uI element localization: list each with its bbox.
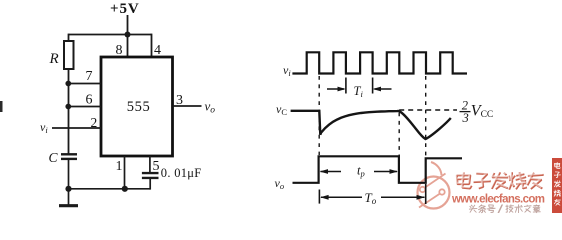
svg-text:C: C (49, 150, 59, 165)
watermark banner vertical text (554, 162, 561, 206)
dashed horizontal 2/3 Vcc level (399, 109, 457, 111)
watermark text zi (473, 171, 491, 189)
node junction dot at +5V rail (125, 32, 131, 38)
node dot pin1 ground (122, 186, 128, 192)
wire left rail R bottom to capacitor (68, 69, 70, 154)
ground symbol bar (59, 204, 78, 207)
wire C2 bottom to ground rail (149, 178, 151, 190)
waveform v_C: plateau, drop, exponential recovery, discharge dip, recovery (291, 111, 451, 139)
svg-text:www.elecfans.com: www.elecfans.com (451, 194, 545, 206)
wire top rail (69, 34, 152, 36)
dashed vertical at v_C plateau end (398, 113, 400, 157)
wire capacitor to ground rail (68, 159, 70, 189)
dashed vertical at first falling edge (318, 76, 320, 155)
watermark logo circle (418, 162, 450, 209)
T_o tick right (425, 184, 427, 204)
wire pin 4 (151, 34, 153, 57)
wire pin 7 (69, 83, 102, 85)
wire v_i to pin 2 (52, 127, 101, 129)
watermark text shao (507, 171, 527, 190)
svg-text:2: 2 (91, 115, 98, 130)
T_o arrow left (321, 196, 362, 198)
svg-text:6: 6 (86, 93, 93, 108)
op IC U1 555 timer box (101, 57, 173, 156)
t_p arrow right (374, 171, 397, 173)
T_i tick left (345, 78, 347, 94)
T_i arrow right (375, 88, 392, 90)
waveform v_o output pulse (293, 156, 463, 183)
wire R top (68, 34, 70, 41)
capacitor C2 0.01uF plates (142, 172, 159, 174)
resistor R (64, 41, 74, 69)
watermark right banner (552, 158, 562, 213)
wire pin 8 (127, 35, 129, 58)
watermark text you (526, 171, 544, 190)
t_p arrow left (321, 171, 342, 173)
wire pin 3 output (173, 105, 202, 107)
stray scan mark left edge (0, 101, 3, 112)
waveform v_i square wave (292, 52, 467, 73)
wire pin 1 to ground rail (124, 156, 126, 189)
watermark text dian (electron) (455, 171, 473, 189)
svg-text:3: 3 (176, 93, 183, 108)
svg-text:R: R (49, 51, 59, 67)
node dot ground left (65, 186, 71, 192)
svg-text:0. 01μF: 0. 01μF (161, 166, 202, 180)
svg-text:555: 555 (127, 99, 151, 115)
wire pin 5 (149, 156, 151, 172)
T_i tick right (372, 78, 374, 94)
T_o tick left (318, 190, 320, 204)
T_i arrow left (327, 88, 344, 90)
wire ground rail (69, 188, 151, 190)
capacitor C plates (61, 153, 77, 155)
svg-text:5: 5 (153, 159, 160, 174)
watermark caption line (469, 204, 541, 213)
svg-text:+5V: +5V (110, 1, 140, 17)
wire +5V stub (127, 15, 129, 35)
ground stub (68, 189, 70, 205)
svg-text:3: 3 (462, 111, 469, 125)
T_o arrow right (381, 196, 425, 198)
node dot pin6 rail (65, 104, 71, 110)
wire pin 6 (69, 106, 102, 108)
dashed vertical at v_C minimum (425, 76, 427, 158)
watermark text fa (490, 171, 508, 190)
node dot pin7 rail (65, 81, 71, 87)
svg-text:7: 7 (86, 69, 93, 84)
svg-text:1: 1 (116, 159, 123, 174)
